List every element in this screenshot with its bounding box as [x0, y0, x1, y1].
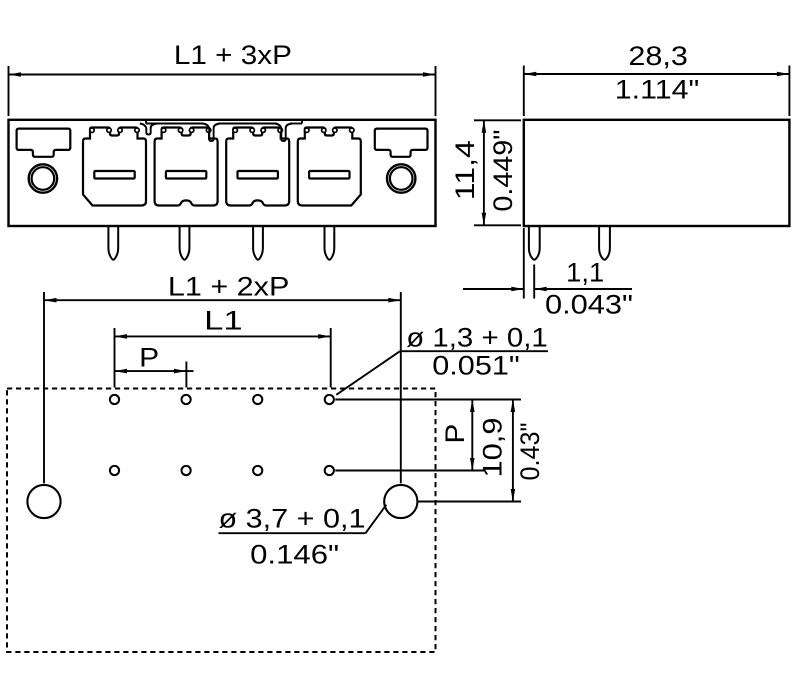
svg-text:0.043": 0.043"	[545, 290, 633, 320]
keying funnel right of cavity 2	[203, 124, 220, 142]
svg-text:P: P	[440, 424, 470, 444]
ext line right of 1,1 dim	[533, 265, 535, 299]
right mounting drill hole (3,7mm)	[384, 485, 417, 518]
right mounting hole rings	[387, 164, 415, 192]
svg-text:0.146": 0.146"	[250, 540, 339, 570]
solder pin 4 (front view)	[325, 227, 335, 260]
solder pin row 2 (side view)	[599, 227, 610, 260]
svg-text:28,3: 28,3	[628, 41, 688, 71]
drill hole row2 col3 (1,3mm)	[253, 466, 262, 475]
svg-text:0.449": 0.449"	[488, 130, 518, 212]
drill hole row2 col2 (1,3mm)	[182, 466, 191, 475]
svg-text:1,1: 1,1	[566, 258, 604, 288]
drill hole row2 col1 (1,3mm)	[110, 466, 119, 475]
ext line top of 11,4 dim	[474, 119, 521, 121]
contact cavity 2 outline	[155, 128, 218, 206]
ext line left circle centerline	[43, 292, 45, 483]
ext line bottom of 11,4 dim	[474, 224, 521, 226]
contact slot 1	[94, 171, 134, 179]
leader line to hole row1 col4	[336, 351, 400, 395]
ext line hole column 2	[185, 362, 187, 388]
contact slot 3	[238, 171, 278, 179]
solder pin 3 (front view)	[253, 227, 263, 260]
contact cavity 3 outline	[226, 128, 289, 206]
housing outline (side view)	[524, 120, 790, 226]
connector housing outline (front view)	[9, 120, 436, 226]
leader underline 3,7	[219, 532, 366, 534]
svg-text:0.051": 0.051"	[432, 350, 520, 380]
contact cavity 4 outline	[298, 128, 361, 206]
solder pin 1 (front view)	[108, 227, 118, 260]
ext line left of L1+3xP dim	[8, 66, 10, 116]
dim line P vertical	[471, 400, 473, 471]
ext line right circle centerline	[400, 292, 402, 483]
ext line hole column 4	[330, 328, 332, 388]
svg-text:ø 1,3 + 0,1: ø 1,3 + 0,1	[406, 322, 548, 352]
contact slot 2	[166, 171, 206, 179]
housing top rib right of cavity 3 funnel	[290, 123, 302, 125]
svg-text:L1 + 3xP: L1 + 3xP	[174, 40, 292, 70]
svg-text:L1 + 2xP: L1 + 2xP	[168, 271, 290, 301]
left mounting hole rings	[29, 164, 57, 192]
svg-text:10,9: 10,9	[478, 418, 508, 478]
dim line P	[115, 370, 194, 372]
ext line left of 1,1 dim	[523, 228, 525, 299]
svg-text:P: P	[139, 342, 159, 372]
svg-text:L1: L1	[204, 306, 243, 336]
contact cavity 1 outline	[83, 128, 146, 206]
dim line 11,4	[483, 120, 485, 225]
ext line hole column 1	[114, 328, 116, 388]
contact slot 4	[309, 171, 349, 179]
ext line right of L1+3xP dim	[435, 66, 437, 116]
solder pin row 1 (side view)	[529, 227, 540, 260]
solder pin 2 (front view)	[180, 227, 190, 260]
svg-text:1.114": 1.114"	[615, 75, 700, 105]
ext line hole row 2	[335, 470, 484, 472]
drill hole row1 col2 (1,3mm)	[182, 395, 191, 404]
drilling plan outline (dashed)	[7, 389, 436, 653]
drill hole row1 col4 (1,3mm)	[325, 395, 334, 404]
keying funnel right of cavity 3	[275, 124, 292, 142]
dim line L1	[115, 335, 331, 337]
keying funnel between cavity 1 and 2	[140, 124, 157, 135]
dim line 10,9	[512, 400, 514, 502]
ext line mounting hole row	[418, 501, 521, 503]
housing top rib over cavity 3	[218, 123, 277, 125]
dim line 28,3	[524, 73, 790, 75]
ext line hole row 1	[335, 399, 521, 401]
right mounting flange	[375, 129, 428, 157]
drill hole row1 col1 (1,3mm)	[110, 395, 119, 404]
dim line L1+2xP	[44, 299, 401, 301]
left mounting flange	[17, 129, 71, 157]
drill hole row1 col3 (1,3mm)	[253, 395, 262, 404]
leader line to right mounting hole	[366, 505, 387, 533]
dim line 1,1	[463, 288, 524, 290]
housing top rib over cavity 2	[146, 123, 203, 125]
left mounting drill hole (3,7mm)	[27, 485, 60, 518]
svg-text:0.43": 0.43"	[515, 423, 545, 481]
svg-text:ø 3,7 + 0,1: ø 3,7 + 0,1	[219, 503, 366, 533]
leader underline 1,3	[400, 350, 548, 352]
svg-text:11,4: 11,4	[450, 140, 480, 200]
drill hole row2 col4 (1,3mm)	[325, 466, 334, 475]
dim line L1+3xP	[9, 74, 436, 76]
ext line right of 28,3 dim	[788, 66, 790, 117]
ext line left of 28,3 dim	[523, 66, 525, 117]
